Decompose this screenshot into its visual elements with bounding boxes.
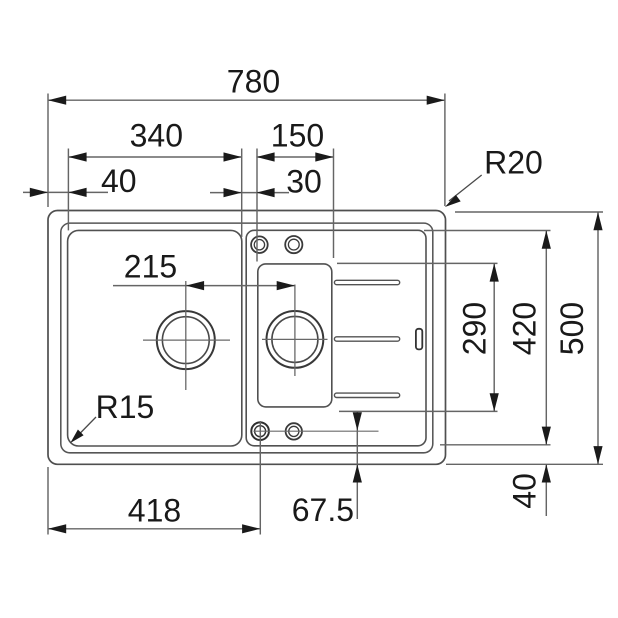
ext line sink top right (500 top) — [455, 211, 603, 213]
small drain crosshair vertical — [294, 285, 296, 377]
left drain crosshair vertical — [185, 281, 187, 390]
left bowl contour — [68, 230, 242, 446]
svg-text:R15: R15 — [96, 389, 155, 425]
ext line x241.7 — [241, 149, 243, 238]
dim 418 right arrow — [242, 524, 260, 533]
leader R20 line — [449, 175, 482, 201]
dim 780 right arrow — [427, 96, 445, 105]
dim 30 left arrow (points right at x241.7) — [224, 188, 242, 197]
svg-text:R20: R20 — [484, 145, 543, 181]
ext line x257 — [256, 149, 258, 262]
leader R15 arrow — [70, 430, 83, 444]
ext line rim top right (420 top) — [424, 230, 551, 232]
dim 500 top arrow — [593, 212, 602, 230]
overflow slot — [416, 329, 422, 350]
dim 420 top arrow — [542, 231, 551, 249]
svg-text:340: 340 — [130, 118, 183, 154]
ext line 290 bottom — [339, 410, 498, 412]
tap hole top-right outer — [285, 236, 302, 253]
ext line x260.3 bottom — [259, 421, 261, 535]
ext line right x444.9 top — [444, 94, 446, 207]
left bowl drain circle outer — [157, 311, 215, 369]
svg-text:30: 30 — [286, 164, 322, 200]
dim 290 line vertical — [493, 263, 495, 411]
small drain crosshair horizontal — [262, 338, 328, 340]
svg-text:780: 780 — [227, 64, 280, 100]
svg-text:67.5: 67.5 — [292, 492, 354, 528]
dim 780 left arrow — [48, 96, 66, 105]
tap hole bottom-left inner — [255, 426, 266, 437]
sink rim inner contour — [61, 223, 433, 453]
dim 150 right arrow — [315, 152, 333, 161]
drainboard groove bottom — [334, 393, 399, 397]
small bowl drain circle inner — [272, 316, 318, 362]
svg-text:215: 215 — [124, 249, 177, 285]
drainboard groove middle — [334, 337, 399, 341]
ext line x333.5 — [333, 149, 335, 259]
dim 420 bottom arrow — [542, 427, 551, 445]
sink outer contour — [48, 211, 446, 465]
ext line left x48 top — [47, 94, 49, 208]
right section contour — [246, 230, 426, 445]
tap hole bottom-right inner — [289, 426, 299, 436]
dim 150 left arrow — [256, 152, 274, 161]
dim 215 line — [113, 285, 295, 287]
tap hole top-left outer — [251, 236, 268, 253]
dim 215 left arrow — [186, 281, 204, 290]
svg-text:40: 40 — [507, 473, 543, 509]
drainboard groove top — [334, 280, 399, 284]
dim 67.5 bottom arrow (points up at sink bottom) — [353, 464, 362, 482]
dim 40 line top-left — [23, 191, 108, 193]
ext line x68.4 — [67, 149, 69, 231]
svg-text:418: 418 — [128, 492, 181, 528]
tap hole top-left inner — [254, 240, 264, 250]
dim 67.5 top arrow (points down at centerline) — [353, 412, 362, 430]
svg-text:40: 40 — [101, 163, 137, 199]
svg-text:150: 150 — [271, 118, 324, 154]
dim 290 top arrow — [490, 263, 499, 281]
dim 780 line — [48, 99, 445, 101]
dim 40 bottom-right up arrow — [542, 464, 551, 482]
dim 418 line — [48, 528, 260, 530]
tap centerline bottom — [253, 430, 378, 432]
dim 40 bottom-right tail line — [545, 464, 547, 516]
ext line sink bottom right (500 bottom) — [446, 463, 603, 465]
tap hole bottom-right outer — [286, 423, 302, 439]
dim 30 line — [210, 192, 289, 194]
dim 340 right arrow — [224, 152, 242, 161]
leader R20 arrow — [445, 195, 461, 207]
ext line x48 bottom — [47, 467, 49, 535]
ext line small bowl top right (290 top) — [337, 262, 498, 264]
svg-text:500: 500 — [554, 302, 590, 355]
dim 215 right arrow — [277, 281, 295, 290]
dim 30 right arrow (points left at x256.4) — [256, 188, 274, 197]
dim 290 bottom arrow — [490, 393, 499, 411]
left bowl drain circle inner — [162, 317, 209, 364]
dim 67.5 line vertical — [356, 412, 358, 520]
svg-text:420: 420 — [507, 302, 543, 355]
leader R15 line — [74, 417, 96, 440]
tap hole top-right inner — [288, 239, 299, 250]
left drain crosshair horizontal — [143, 339, 230, 341]
ext line 420 bottom — [440, 444, 551, 446]
svg-text:290: 290 — [457, 302, 493, 355]
dim 340 line — [68, 156, 241, 158]
small bowl contour — [258, 264, 332, 407]
dim 500 bottom arrow — [593, 446, 602, 464]
dim 340 left arrow — [68, 152, 86, 161]
dim 420 line vertical — [545, 231, 547, 445]
dim 150 line — [256, 156, 333, 158]
dim 40 left arrow (points right at x48) — [30, 188, 48, 197]
dim 418 left arrow — [48, 524, 66, 533]
dim 500 line vertical — [597, 212, 599, 464]
small bowl drain circle outer — [267, 311, 324, 368]
tap hole bottom-left outer — [251, 422, 269, 440]
dim 40 right arrow (points left at x68.4) — [68, 188, 86, 197]
